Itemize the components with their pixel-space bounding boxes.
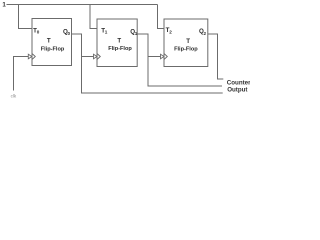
svg-text:1: 1	[105, 30, 108, 35]
svg-text:Flip-Flop: Flip-Flop	[108, 46, 132, 52]
wire: Q0 branch to FF2 clock	[82, 56, 94, 58]
flip-flop U2 box	[97, 19, 137, 67]
wire: rail drop to T1 input	[90, 5, 97, 29]
svg-text:Flip-Flop: Flip-Flop	[41, 46, 65, 52]
wire: Q0 to FF2 clock and output bus	[72, 34, 223, 93]
wire: Q1 to FF3 clock and output bus	[137, 34, 222, 86]
U3 clock chevron	[164, 54, 167, 60]
svg-text:Counter: Counter	[227, 80, 250, 87]
wire: Q1 branch to FF3 clock	[148, 56, 161, 58]
U1 clock chevron	[32, 54, 35, 60]
wire: rail drop to T0 input	[19, 5, 33, 29]
svg-text:0: 0	[37, 30, 40, 35]
svg-text:Flip-Flop: Flip-Flop	[174, 47, 198, 53]
flip-flop U3 box	[164, 19, 208, 67]
U2 clock chevron	[97, 54, 100, 60]
flip-flop U1 box	[32, 19, 72, 66]
wire: logic-1 top rail	[7, 4, 158, 6]
svg-text:2: 2	[169, 30, 172, 35]
arrowhead into FF2 clock	[94, 54, 98, 59]
svg-text:Output: Output	[227, 87, 247, 94]
wire: rail drop to T2 input	[158, 5, 165, 29]
wire: clk input	[14, 57, 29, 91]
svg-text:0: 0	[68, 31, 71, 36]
arrowhead into FF3 clock	[161, 54, 165, 59]
arrowhead into FF1 clock	[28, 54, 32, 59]
svg-text:1: 1	[2, 2, 6, 9]
svg-text:clk: clk	[11, 94, 17, 99]
svg-text:T: T	[117, 38, 121, 45]
svg-text:2: 2	[204, 31, 207, 36]
svg-text:T: T	[47, 38, 51, 45]
svg-text:T: T	[186, 38, 190, 45]
wire: Q2 to counter output	[208, 34, 224, 79]
